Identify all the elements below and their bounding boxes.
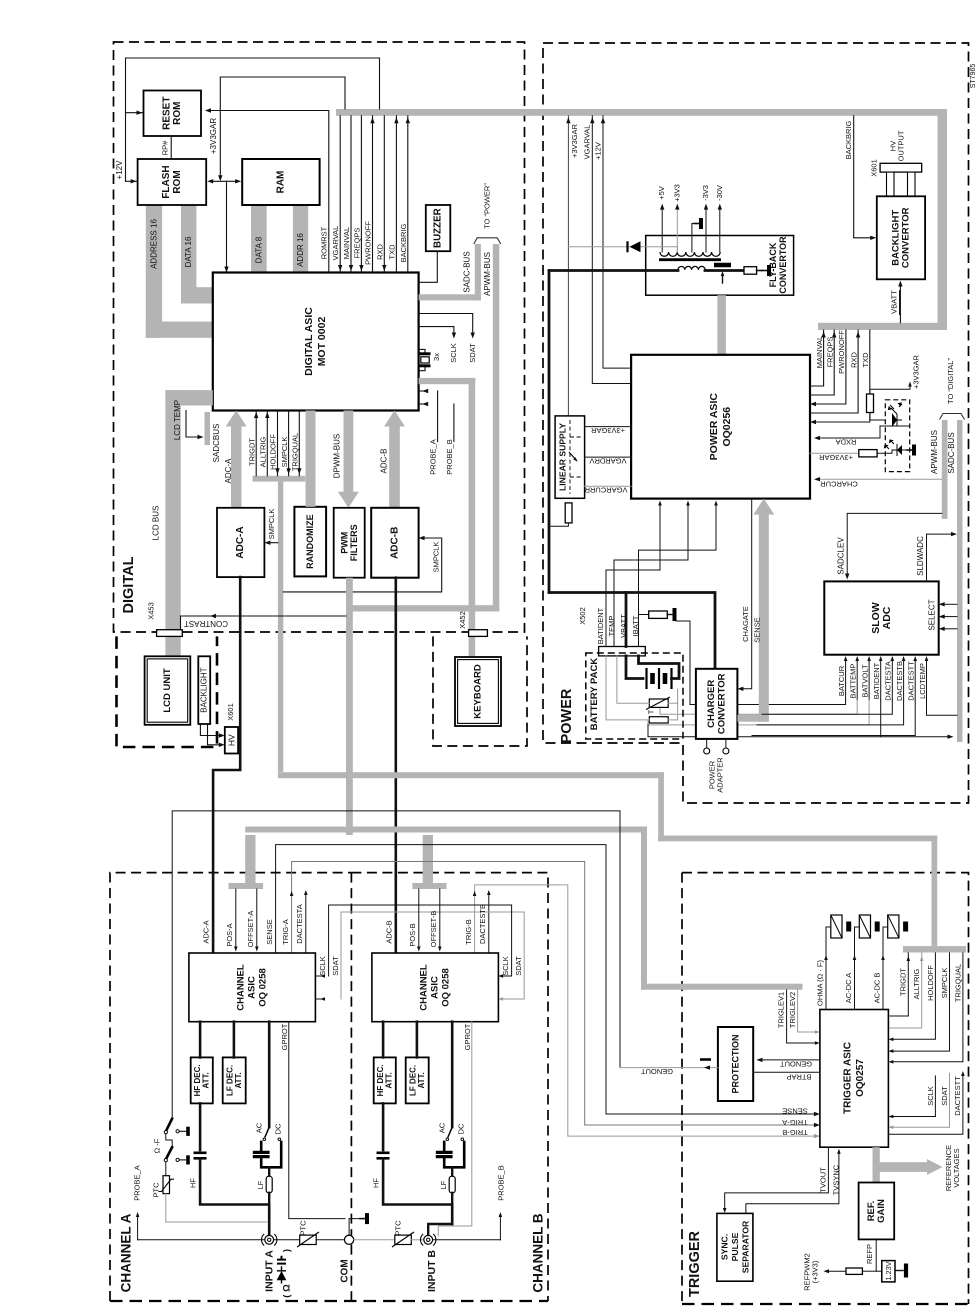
bus keyboard (gray)	[419, 378, 476, 384]
svg-text:PULSE: PULSE	[730, 1232, 740, 1261]
svg-text:LCD UNIT: LCD UNIT	[162, 668, 173, 713]
wire PWRONOFF	[372, 116, 374, 273]
svg-text:+3V3: +3V3	[672, 184, 681, 202]
wire MAINVAL	[350, 116, 352, 273]
section box LCD sub (heavy dashed)	[117, 636, 218, 747]
svg-text:CONVERTOR: CONVERTOR	[716, 673, 727, 734]
svg-text:INPUT A: INPUT A	[264, 1250, 276, 1292]
svg-text:OFFSET-A: OFFSET-A	[246, 911, 255, 948]
svg-text:BATCUR: BATCUR	[837, 665, 846, 696]
wire VBATT to backlight conv	[899, 284, 901, 323]
CHARGER CONVERTOR box	[696, 669, 738, 739]
svg-text:AC-DC B: AC-DC B	[873, 973, 882, 1004]
resistor opto top	[867, 394, 874, 413]
bus trigger signals vertical (gray)	[278, 482, 283, 772]
svg-text:ADC-B: ADC-B	[380, 449, 389, 474]
svg-text:ALLTRIG: ALLTRIG	[912, 968, 921, 999]
section box DIGITAL (dashed)	[114, 42, 525, 632]
wire BACKBRIG	[407, 116, 409, 273]
BATTERY PACK box (dashed)	[586, 653, 683, 739]
svg-text:LINEAR SUPPLY: LINEAR SUPPLY	[558, 423, 568, 491]
svg-text:TVSYNC: TVSYNC	[832, 1164, 841, 1195]
svg-text:DACTESTB: DACTESTB	[895, 661, 904, 701]
svg-text:1.23V: 1.23V	[884, 1261, 893, 1280]
svg-text:TRIG-B: TRIG-B	[464, 919, 473, 944]
bus SADC-BUS (gray, to power)	[475, 244, 481, 300]
input A diode symbol	[277, 1266, 286, 1283]
wire HF path B (thick)	[382, 1103, 385, 1150]
svg-text:PROTECTION: PROTECTION	[731, 1034, 741, 1093]
wire POS-B	[418, 889, 420, 948]
svg-text:ATT.: ATT.	[417, 1072, 426, 1088]
svg-text:CONVERTOR: CONVERTOR	[778, 236, 788, 294]
bus power distribution (gray) top	[336, 109, 947, 116]
wire flyback output -3V3	[705, 207, 707, 252]
svg-text:CONVERTOR: CONVERTOR	[901, 207, 912, 268]
LF DEC ATT B box	[406, 1057, 429, 1103]
wire DACTESTA net	[305, 893, 307, 953]
wire SCLK channel B drop	[502, 905, 512, 976]
svg-text:POS-A: POS-A	[225, 923, 234, 946]
svg-text:ADC-B: ADC-B	[384, 920, 393, 943]
svg-text:TRIGQUAL: TRIGQUAL	[291, 433, 300, 471]
wire SMPCLK to ADC-A	[268, 542, 278, 544]
wire RAM link down to ASIC	[226, 181, 228, 267]
wire SMPCLK trig	[893, 953, 950, 1051]
section box KEYBOARD sub (dashed)	[433, 636, 527, 746]
wire POS-A	[235, 889, 237, 948]
svg-text:ADC-A: ADC-A	[201, 920, 210, 943]
svg-text:CHAGATE: CHAGATE	[741, 606, 750, 642]
resistor flyback source	[744, 267, 757, 275]
svg-text:TRIGGER ASIC: TRIGGER ASIC	[843, 1042, 854, 1114]
bus trigger signals T-bar (gray)	[903, 946, 966, 952]
svg-text:PROBE_A: PROBE_A	[429, 439, 438, 474]
svg-text:SDAT: SDAT	[514, 956, 523, 976]
svg-text:DACTESTT: DACTESTT	[907, 661, 916, 701]
svg-text:HOLDOFF: HOLDOFF	[269, 434, 278, 470]
wire TVSYNC	[746, 1151, 839, 1213]
wire VBATT distribution (thick)	[549, 593, 715, 669]
wire BATCUR into slow ADC	[845, 659, 847, 700]
svg-text:ASIC: ASIC	[430, 976, 441, 999]
svg-text:+3V3GAR: +3V3GAR	[590, 426, 625, 435]
wire CHAGATE	[741, 499, 752, 689]
REF GAIN box	[859, 1183, 895, 1240]
svg-text:BATTEMP: BATTEMP	[849, 664, 858, 699]
input B connector	[424, 1235, 433, 1244]
svg-text:SYNC.: SYNC.	[719, 1234, 729, 1260]
svg-text:PWRONOFF: PWRONOFF	[837, 330, 846, 374]
battery sense resistor to ground	[639, 614, 649, 616]
bus SADC-BUS power (gray)	[957, 420, 963, 742]
section box CHANNEL A (dashed)	[110, 873, 351, 1301]
wire PWRONOFF power	[811, 330, 846, 404]
svg-text:BUZZER: BUZZER	[433, 208, 444, 248]
wire PROBE_A	[437, 391, 439, 442]
svg-text:SADCBUS: SADCBUS	[212, 424, 221, 463]
svg-text:OHMA (Ω · F): OHMA (Ω · F)	[816, 959, 825, 1006]
wire ASIC to LF att B (thick)	[416, 1022, 419, 1058]
svg-text:ADDRESS 16: ADDRESS 16	[150, 219, 159, 269]
svg-text:LF: LF	[439, 1180, 448, 1189]
bus REFERENCE VOLTAGES arrow (gray)	[873, 1162, 928, 1172]
svg-text:SADC-BUS: SADC-BUS	[947, 432, 956, 473]
svg-text:OUTPUT: OUTPUT	[897, 130, 906, 161]
wire IBATT pin	[639, 503, 717, 647]
wire AC-DC B	[883, 927, 888, 1010]
wire SELECT x3	[943, 603, 958, 605]
wire GENOUT to channels	[620, 1067, 718, 1069]
wire TRIGQUAL trig	[893, 953, 963, 1062]
wire TRIG-A net	[292, 862, 816, 1126]
svg-text:-3V3: -3V3	[701, 185, 710, 201]
svg-text:+12V: +12V	[115, 160, 124, 180]
svg-text:): )	[282, 1249, 293, 1252]
svg-text:BATIDENT: BATIDENT	[872, 662, 881, 699]
svg-text:VOLTAGES: VOLTAGES	[952, 1148, 961, 1187]
wire SDAT out	[419, 314, 473, 334]
bus SADCBUS stub (gray)	[205, 412, 211, 445]
svg-text:X601: X601	[870, 159, 879, 177]
svg-text:SMPCLK: SMPCLK	[431, 542, 440, 573]
svg-text:TRIGDT: TRIGDT	[247, 438, 256, 466]
bus ADC-A (gray)	[231, 423, 242, 508]
PWM FILTERS box	[334, 508, 365, 578]
wire BATIDENT into slow ADC	[880, 659, 882, 700]
svg-text:PWM: PWM	[339, 532, 349, 554]
svg-text:OQ 0258: OQ 0258	[258, 968, 269, 1007]
wire RXD power	[811, 330, 858, 413]
svg-text:REFP: REFP	[865, 1244, 874, 1264]
HF DEC ATT B box	[374, 1057, 396, 1103]
bus DATA 16 (gray)	[181, 205, 196, 304]
wire REFP	[875, 1239, 877, 1271]
BUZZER box	[426, 205, 451, 251]
wire BATCUR route	[676, 621, 846, 705]
bus power distribution (gray) lower run	[818, 323, 947, 330]
bus flyback drive (gray)	[717, 295, 726, 355]
wire OHMA	[826, 927, 831, 1010]
svg-text:SDAT: SDAT	[940, 1086, 949, 1106]
ADC-A box	[217, 508, 264, 577]
bus PWM output (gray)	[346, 578, 353, 835]
svg-text:ALLTRIG: ALLTRIG	[259, 436, 268, 467]
bus REF GAIN link (gray)	[873, 1147, 880, 1183]
wire AC-DC A	[855, 927, 860, 1010]
battery cells symbol	[626, 656, 643, 679]
svg-text:LF: LF	[256, 1180, 265, 1189]
wire PROBE_B	[453, 404, 455, 442]
wire PROBE_B at input	[433, 1239, 501, 1241]
wire +12V supply	[603, 116, 631, 368]
connector X452	[469, 630, 488, 637]
svg-text:X601: X601	[226, 703, 235, 721]
HV box	[225, 727, 238, 754]
wire SDAT channel B drop	[502, 912, 524, 999]
svg-text:ATT.: ATT.	[234, 1072, 243, 1088]
svg-text:TRIGLEV2: TRIGLEV2	[788, 992, 797, 1028]
protection ground mark	[700, 1058, 711, 1061]
svg-text:SEPARATOR: SEPARATOR	[740, 1220, 750, 1273]
SLOW ADC box	[824, 581, 938, 654]
wire LCDTEMP into slow ADC	[926, 659, 928, 700]
wire FLASH-RAM data link	[212, 180, 237, 182]
wire OFFSET-B	[439, 889, 441, 948]
svg-text:CHARCUR: CHARCUR	[820, 480, 858, 489]
svg-text:RXD: RXD	[375, 244, 384, 260]
LF resistor B	[451, 1167, 453, 1176]
wire TRIGQUAL	[298, 411, 300, 476]
resistor opto 2	[859, 450, 877, 457]
svg-text:GENOUT: GENOUT	[780, 1060, 813, 1069]
wire ALLTRIG	[890, 953, 922, 1028]
svg-text:VBATT: VBATT	[890, 290, 899, 314]
svg-text:PWRONOFF: PWRONOFF	[364, 221, 373, 265]
svg-text:FREQPS: FREQPS	[825, 337, 834, 368]
svg-text:ROM: ROM	[172, 102, 183, 125]
svg-text:ADC-B: ADC-B	[389, 527, 400, 559]
bus power distribution (gray) right wrap	[938, 109, 948, 330]
wire LCD TEMP	[186, 411, 200, 438]
RAM box	[242, 159, 319, 205]
wire +3V3GAR to opto 2	[810, 452, 859, 454]
ADC-B box	[371, 508, 418, 578]
svg-text:SADC-BUS: SADC-BUS	[463, 251, 472, 292]
wire DACTESTT feed slow adc	[752, 700, 915, 736]
svg-text:SELECT: SELECT	[928, 599, 937, 630]
wire ASIC to AC/DC switch A (thick)	[268, 1022, 271, 1127]
wire ROMRST	[207, 111, 329, 273]
svg-text:FREQPS: FREQPS	[352, 228, 361, 259]
svg-text:LCD TEMP: LCD TEMP	[173, 400, 182, 440]
wire SDAT trigger stub	[893, 1073, 950, 1127]
section box CHANNEL B (dashed)	[351, 873, 548, 1301]
svg-text:TXD: TXD	[861, 352, 870, 368]
bus DATA 8 (gray)	[251, 205, 267, 273]
wire SCLK trigger stub	[893, 1076, 935, 1117]
svg-text:BACKLIGHT: BACKLIGHT	[200, 667, 209, 712]
svg-text:CONTRAST: CONTRAST	[184, 619, 228, 628]
FLY-BACK CONVERTOR box	[646, 236, 794, 296]
PTC at COM left	[300, 1235, 317, 1244]
svg-text:3x: 3x	[432, 353, 441, 361]
DIGITAL ASIC box	[213, 273, 419, 411]
relay K3	[888, 915, 899, 938]
wire ASIC to AC/DC switch B (thick)	[451, 1022, 454, 1127]
omega-F contact terminals	[176, 1130, 179, 1133]
optocoupler group (dashed)	[885, 400, 909, 472]
svg-text:ADC-A: ADC-A	[235, 526, 246, 558]
svg-text:APWM-BUS: APWM-BUS	[483, 252, 492, 296]
PTC A vertical	[165, 1162, 167, 1176]
crystal 3x	[419, 349, 425, 352]
svg-text:(+3V3): (+3V3)	[811, 1260, 820, 1283]
wire BATTEMP into slow ADC	[856, 659, 858, 700]
svg-text:GPROT: GPROT	[280, 1023, 289, 1050]
wire TRIGLEV2	[798, 990, 816, 1032]
AC DC switch B	[448, 1127, 452, 1137]
wire TEMP pin	[614, 503, 688, 647]
input A capacitor symbol	[277, 1256, 286, 1264]
svg-text:+3V3GAR: +3V3GAR	[209, 118, 218, 154]
svg-text:PROBE_B: PROBE_B	[445, 439, 454, 474]
linear supply internal pass transistor	[569, 420, 571, 494]
svg-text:VGARCURR: VGARCURR	[584, 486, 628, 495]
wire SLDWADC	[927, 534, 954, 581]
BACKLIGHT CONVERTOR box	[877, 196, 925, 279]
svg-text:VGARDRV: VGARDRV	[590, 457, 627, 466]
svg-text:APWM-BUS: APWM-BUS	[930, 430, 939, 474]
transformer secondary winding	[660, 252, 720, 256]
bus trigger signals bar (gray)	[253, 476, 306, 482]
wire RP# reset to flash	[170, 136, 172, 159]
svg-text:DC: DC	[457, 1123, 466, 1134]
svg-text:PTC: PTC	[394, 1220, 403, 1236]
wire GPROT A	[289, 1022, 345, 1219]
svg-text:T: T	[649, 709, 656, 714]
transformer core	[659, 258, 721, 261]
svg-text:TVOUT: TVOUT	[819, 1167, 828, 1193]
svg-text:MAINVAL: MAINVAL	[342, 227, 351, 259]
transformer primary winding	[678, 266, 705, 269]
LF DEC ATT A box	[223, 1057, 246, 1103]
svg-text:DPWM-BUS: DPWM-BUS	[333, 434, 342, 478]
wire SMPCLK to ADC-B	[283, 538, 441, 592]
power adapter terminals	[706, 739, 708, 748]
svg-text:HF: HF	[189, 1178, 198, 1188]
wire DACTESTT trigger stub	[888, 1074, 963, 1134]
svg-text:GENOUT: GENOUT	[641, 1067, 674, 1076]
wire DACTESTB feed slow adc	[757, 700, 904, 725]
wire GENOUT net	[172, 811, 620, 1119]
svg-text:SCLK: SCLK	[318, 956, 327, 976]
svg-text:ST7965: ST7965	[970, 64, 977, 89]
reference 1.23V box	[882, 1261, 895, 1282]
svg-text:CHANNEL: CHANNEL	[236, 964, 247, 1011]
wire HOLDOFF trig	[893, 953, 935, 1039]
svg-text:RXDA: RXDA	[836, 438, 857, 447]
wire BATVOLT route	[648, 700, 869, 725]
ground 1.23V	[895, 1270, 903, 1272]
svg-text:AC-DC A: AC-DC A	[844, 973, 853, 1003]
svg-text:SENSE: SENSE	[782, 1107, 807, 1116]
svg-text:TRIGGER: TRIGGER	[687, 1230, 703, 1297]
svg-text:Ω -F: Ω -F	[153, 1138, 162, 1153]
wire GPROT B	[438, 1022, 472, 1236]
wire TRIG-B net	[475, 885, 816, 1136]
wire TXD power	[811, 330, 870, 422]
svg-text:VGARVAL: VGARVAL	[331, 226, 340, 261]
svg-text:HF: HF	[372, 1178, 381, 1188]
svg-text:SENSE: SENSE	[265, 919, 274, 944]
resistor linear supply sense	[565, 503, 572, 523]
wire FREQPS power	[811, 330, 834, 395]
svg-text:FILTERS: FILTERS	[349, 524, 359, 561]
relay K1	[831, 915, 842, 938]
connector X453	[157, 630, 183, 637]
wire ASIC to HF att B (thick)	[382, 1022, 385, 1058]
svg-text:ATT.: ATT.	[385, 1072, 394, 1088]
svg-text:X502: X502	[578, 607, 587, 625]
svg-text:TXD: TXD	[387, 244, 396, 260]
svg-text:DIGITAL ASIC: DIGITAL ASIC	[303, 307, 315, 376]
ground flyback source	[757, 270, 762, 272]
wire VGARVAL supply	[592, 116, 631, 384]
svg-text:ROM: ROM	[172, 170, 183, 193]
svg-text:HF DEC.: HF DEC.	[193, 1064, 202, 1096]
svg-text:SDAT: SDAT	[468, 343, 477, 363]
wire LCDTEMP route	[927, 700, 958, 715]
svg-text:SCLK: SCLK	[926, 1086, 935, 1106]
svg-text:DACTESTA: DACTESTA	[884, 661, 893, 700]
wire OFFSET-A	[256, 889, 258, 948]
bracket TO DIGITAL	[940, 414, 965, 420]
CHANNEL ASIC A box	[189, 953, 316, 1022]
wire HOLDOFF	[277, 411, 279, 476]
wire TVOUT	[725, 1147, 829, 1209]
wire DACTESTA into slow ADC	[891, 659, 893, 700]
svg-text:TRIG-A: TRIG-A	[281, 919, 290, 944]
wire DACTESTT into slow ADC	[914, 659, 916, 700]
svg-text:SLOW: SLOW	[870, 602, 882, 634]
wire PROBE_A at input	[138, 1239, 265, 1241]
wire DACTESTB net	[488, 893, 490, 953]
wire RXDA	[817, 426, 910, 438]
svg-text:DACTESTB: DACTESTB	[478, 904, 487, 944]
LF resistor A	[268, 1167, 270, 1176]
svg-text:OQ0257: OQ0257	[855, 1059, 866, 1097]
wire BATIDENT pin	[606, 503, 660, 647]
svg-text:SENSE: SENSE	[752, 617, 761, 642]
ROM RESET box	[144, 91, 202, 137]
svg-text:RANDOMIZE: RANDOMIZE	[305, 514, 315, 569]
relay K2	[859, 915, 870, 938]
bus ADDRESS 16 (gray)	[146, 205, 162, 338]
svg-text:DC: DC	[274, 1123, 283, 1134]
svg-text:+3V3GAR: +3V3GAR	[570, 123, 579, 158]
optocoupler LED 2	[885, 440, 903, 456]
wire flyback output -30V	[719, 207, 721, 252]
wire TRIGLEV1	[787, 990, 816, 1043]
svg-text:PROBE_A: PROBE_A	[133, 1165, 142, 1200]
svg-text:OQ0256: OQ0256	[721, 407, 733, 447]
bus POS/OFFSET B drop (gray)	[423, 835, 433, 883]
wire GENOUT asic-protection	[758, 1059, 820, 1061]
KEYBOARD box	[455, 657, 501, 726]
svg-text:TRIG-A: TRIG-A	[782, 1118, 807, 1127]
wire ADC-B input (thick)	[394, 578, 397, 953]
battery internal rail	[677, 689, 679, 720]
wire backlight to HV 2	[205, 724, 222, 745]
bus POS/OFFSET A drop (gray)	[245, 835, 255, 883]
TRIGGER ASIC box	[820, 1010, 889, 1148]
svg-text:GAIN: GAIN	[876, 1199, 887, 1223]
wire RXD	[383, 116, 385, 273]
omega-F switch A	[166, 1119, 172, 1131]
svg-text:SMPCLK: SMPCLK	[280, 437, 289, 468]
svg-text:FLASH: FLASH	[161, 165, 172, 198]
svg-text:TRIGLEV1: TRIGLEV1	[776, 992, 785, 1028]
wire ASIC to HF att A (thick)	[199, 1022, 202, 1058]
wire ALLTRIG	[266, 411, 268, 476]
svg-text:OFFSET-B: OFFSET-B	[429, 911, 438, 948]
wire SDAT I2C net	[341, 912, 524, 999]
BACKLIGHT box	[198, 656, 210, 724]
ground opto	[902, 449, 907, 451]
wire +3V3GAR supply	[567, 116, 569, 499]
svg-text:DIGITAL: DIGITAL	[121, 556, 137, 613]
